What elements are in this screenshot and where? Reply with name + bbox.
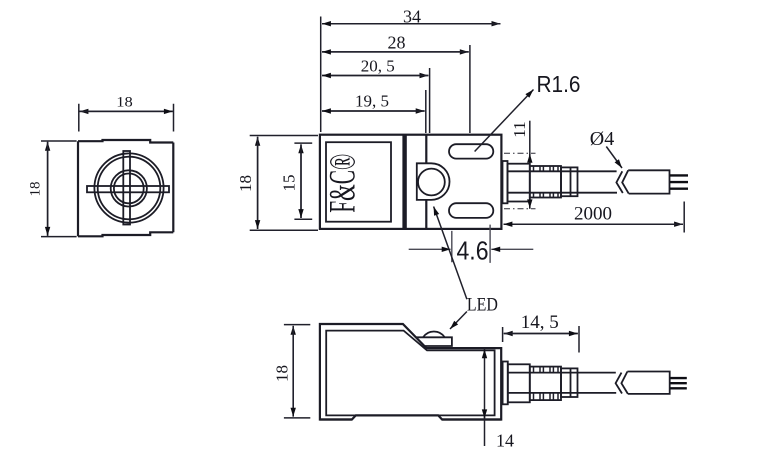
- svg-text:19, 5: 19, 5: [355, 92, 389, 111]
- svg-text:15: 15: [280, 175, 299, 192]
- front view cross slot vertical bar: [123, 151, 130, 225]
- svg-text:18: 18: [116, 95, 133, 111]
- svg-text:18: 18: [28, 182, 44, 197]
- cable first section (bottom view): [508, 373, 616, 393]
- svg-text:14: 14: [496, 430, 514, 450]
- svg-text:28: 28: [388, 33, 406, 53]
- svg-text:LED: LED: [467, 295, 498, 316]
- dimension 28: [322, 33, 470, 134]
- cable second section (side view): [628, 170, 669, 193]
- svg-text:34: 34: [403, 7, 421, 27]
- dimension 19,5: [322, 90, 426, 133]
- LED dome plinth: [416, 337, 452, 346]
- cable first section (side view): [508, 171, 618, 192]
- cable flange (side view): [503, 161, 508, 203]
- diameter callout Ø4: [590, 128, 622, 168]
- svg-text:18: 18: [236, 175, 255, 192]
- dimension 18 (side view left): [236, 136, 318, 231]
- bottom view inner wall: [326, 331, 494, 416]
- cable gland collar (bottom view): [508, 364, 530, 402]
- slot centerline top: [504, 152, 536, 154]
- radius callout R1.6: [475, 71, 581, 152]
- cable gland ribbed boot (bottom view): [530, 367, 561, 401]
- wire leads (bottom view): [670, 378, 687, 388]
- front view inner circle pair: [111, 170, 147, 206]
- label plate rectangle: [326, 142, 391, 222]
- dimension 18 (front view left): [28, 141, 77, 237]
- mould parting divider band: [402, 135, 406, 229]
- cable break symbol (side view): [616, 170, 628, 193]
- dimension 14,5: [503, 312, 579, 353]
- dimension 11: [510, 121, 530, 209]
- cable gland tip (bottom view): [561, 368, 578, 397]
- dimension 15: [280, 143, 313, 219]
- LED dome: [423, 332, 445, 338]
- front view outer circle pair: [94, 153, 163, 222]
- dimension 18 (front view top): [79, 95, 174, 132]
- front view square body outline: [78, 140, 173, 236]
- svg-text:F&C®: F&C®: [323, 154, 364, 213]
- side view body outline: [320, 135, 502, 229]
- mounting slot top: [449, 144, 493, 158]
- svg-text:Ø4: Ø4: [590, 128, 614, 150]
- wire leads (side view): [670, 175, 688, 188]
- LED boss (rounded tongue): [417, 163, 450, 200]
- cable break symbol (bottom view): [616, 372, 628, 394]
- dimension 14: [485, 348, 515, 450]
- dimension 2000: [504, 202, 685, 233]
- LED window circle: [418, 169, 445, 196]
- cable gland tip (side view): [561, 167, 578, 196]
- svg-text:4.6: 4.6: [457, 236, 489, 266]
- svg-text:11: 11: [510, 121, 529, 137]
- svg-text:18: 18: [272, 365, 291, 382]
- svg-text:R1.6: R1.6: [537, 71, 581, 97]
- cable second section (bottom view): [627, 372, 669, 394]
- svg-text:2000: 2000: [574, 204, 612, 225]
- svg-text:14, 5: 14, 5: [521, 312, 559, 333]
- mounting slot bottom: [449, 203, 493, 218]
- LED leader line: [434, 207, 498, 330]
- dimension 4.6: [409, 225, 534, 266]
- cable gland ribbed boot (side view): [530, 166, 561, 198]
- dimension 34: [321, 7, 501, 133]
- dimension 18 (bottom view): [272, 325, 310, 418]
- bottom view outer profile: [320, 324, 501, 420]
- cable gland collar (side view): [508, 164, 530, 202]
- svg-text:20, 5: 20, 5: [361, 57, 395, 76]
- slot centerline bottom: [504, 208, 536, 210]
- dimension 20,5: [322, 57, 430, 134]
- front view cross slot horizontal bar: [87, 186, 169, 192]
- cable flange (bottom view): [503, 362, 508, 405]
- sensing head step line: [425, 135, 427, 229]
- bottom view bottom edge line: [320, 418, 501, 420]
